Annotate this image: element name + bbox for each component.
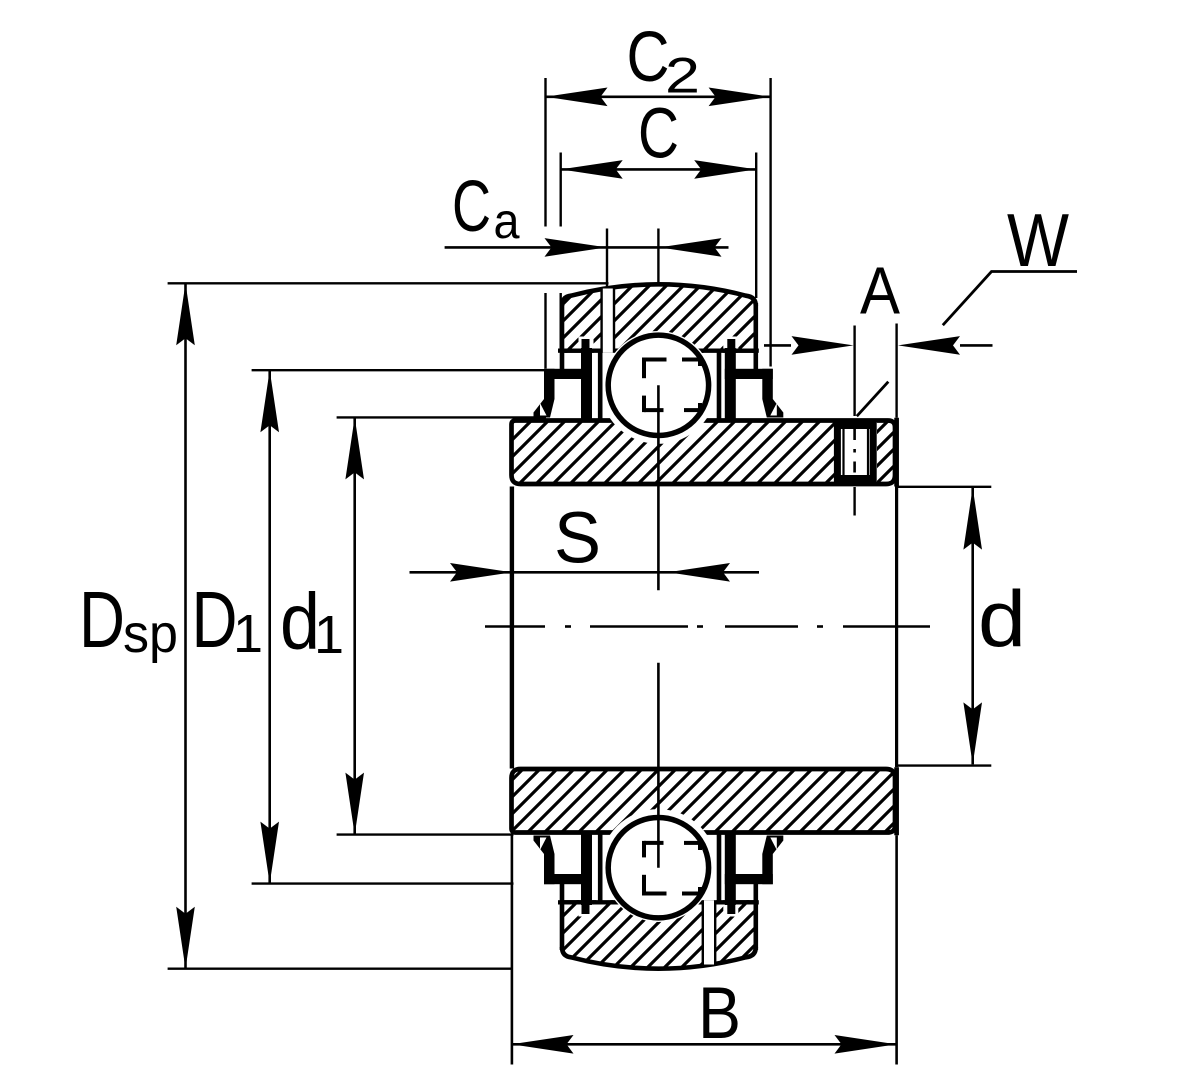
- Dsp bottom extension line: [168, 968, 512, 970]
- svg-text:A: A: [860, 254, 900, 329]
- svg-text:D: D: [79, 575, 125, 664]
- lubrication hole lower right edge: [714, 900, 716, 964]
- outer ring lower bore edge: [560, 900, 758, 904]
- dimension C left arrow: [561, 160, 623, 179]
- dimension Ca right arrow: [660, 238, 722, 257]
- set screw hole border: [837, 426, 873, 479]
- seal land line upper-right: [717, 353, 722, 419]
- dimension Ca line: [445, 246, 729, 249]
- svg-text:1: 1: [314, 605, 344, 665]
- cage pocket (lower ball, dashed square): [644, 841, 700, 896]
- ball centre plane line (upper): [657, 385, 660, 590]
- seal upper-left (flinger + lip): [534, 337, 595, 420]
- lubrication hole left edge: [600, 289, 602, 353]
- Ca ball plane extension: [657, 229, 659, 283]
- C right extension line: [755, 153, 757, 299]
- outer ring upper bore edge: [560, 349, 758, 353]
- dimension A left arrow: [792, 336, 854, 355]
- dimension A right tail: [960, 344, 993, 347]
- outer ring lower left face: [560, 884, 565, 950]
- dimension C line: [561, 168, 757, 171]
- dimension d1 line: [353, 417, 356, 834]
- seal land line lower-left: [598, 835, 603, 901]
- dimension C right arrow: [694, 160, 756, 179]
- label Dsp: [79, 575, 178, 664]
- D1 bottom extension line: [252, 882, 514, 884]
- Ca lubrication hole centre extension: [606, 229, 608, 288]
- lubrication hole (upper): [601, 289, 615, 353]
- lubrication hole lower left edge: [702, 900, 704, 964]
- dimension S right arrow: [668, 563, 730, 582]
- dimension S line: [410, 571, 760, 574]
- dimension C2 line: [546, 96, 771, 99]
- dimension A right arrow: [898, 336, 960, 355]
- d top extension line: [897, 486, 991, 488]
- bearing axis centreline: [485, 625, 930, 628]
- set screw centreline in hole: [853, 429, 856, 477]
- C2 right extension line: [769, 78, 771, 367]
- set screw thread line left: [842, 429, 844, 475]
- C left extension line: [560, 153, 562, 353]
- svg-text:C: C: [627, 18, 670, 97]
- svg-text:sp: sp: [123, 604, 178, 664]
- cage pocket (upper ball, dashed square): [644, 358, 700, 413]
- dimension d top arrow: [963, 488, 982, 550]
- svg-text:d: d: [978, 575, 1026, 664]
- ball centre plane line (lower): [657, 663, 660, 868]
- set screw centreline lower: [853, 487, 855, 516]
- outer ring upper spherical OD arc: [562, 284, 756, 306]
- svg-text:a: a: [494, 193, 520, 249]
- dimension Dsp top arrow: [176, 283, 195, 345]
- dimension Ca left arrow: [545, 238, 607, 257]
- dimension S left arrow: [450, 563, 512, 582]
- svg-text:D: D: [192, 575, 238, 664]
- dimension d1 bottom arrow: [345, 773, 364, 835]
- set screw thread line right: [867, 429, 869, 475]
- inner ring left face / extension line: [510, 487, 514, 1065]
- set screw centreline upper: [853, 326, 855, 417]
- dimension B line: [512, 1043, 897, 1046]
- C2 left extension line: [544, 78, 546, 369]
- dimension d1 top arrow: [345, 417, 364, 479]
- dimension D1 line: [268, 370, 271, 883]
- ball (upper): [608, 335, 708, 435]
- svg-text:1: 1: [233, 604, 263, 664]
- seal lower-left (flinger + lip): [534, 834, 595, 917]
- dimension C2 right arrow: [709, 88, 771, 107]
- W leader line to screw: [857, 382, 889, 417]
- svg-text:W: W: [1007, 198, 1069, 282]
- outer ring upper right face: [753, 303, 758, 369]
- seal land line lower-right: [717, 835, 722, 901]
- dimension A left tail: [764, 344, 791, 347]
- dimension Dsp line: [184, 283, 187, 968]
- dimension C2 left arrow: [546, 88, 608, 107]
- dimension B right arrow: [835, 1035, 897, 1054]
- dimension d line: [971, 488, 974, 765]
- label D1: [192, 575, 264, 664]
- outer ring lower spherical OD arc: [562, 947, 756, 969]
- label d1: [280, 577, 344, 666]
- seal land line upper-left: [598, 353, 603, 419]
- seal lower-right (flinger + lip): [723, 834, 784, 917]
- lubrication hole (lower): [702, 900, 716, 964]
- dimension d bottom arrow: [963, 702, 982, 764]
- dimension B left arrow: [512, 1035, 574, 1054]
- outer ring upper left face: [560, 303, 565, 369]
- svg-text:C: C: [452, 167, 491, 247]
- svg-text:B: B: [698, 973, 741, 1054]
- seal upper-right (flinger + lip): [723, 337, 784, 420]
- d1 bottom extension line: [337, 833, 514, 835]
- Dsp top extension line: [168, 282, 609, 284]
- D1 top extension line: [252, 369, 547, 371]
- d bottom extension line: [897, 764, 991, 766]
- dimension D1 top arrow: [260, 370, 279, 432]
- lubrication hole right edge: [613, 289, 615, 353]
- dimension D1 bottom arrow: [260, 822, 279, 884]
- dimension Dsp bottom arrow: [176, 907, 195, 969]
- inner ring right face / extension line: [895, 324, 897, 1065]
- W leader line: [943, 272, 1077, 326]
- label C2: [627, 18, 701, 104]
- svg-text:S: S: [554, 499, 601, 579]
- ball (lower): [608, 818, 708, 918]
- set screw hole clearance: [834, 423, 877, 482]
- outer ring lower right face: [753, 884, 758, 950]
- svg-text:C: C: [638, 94, 679, 173]
- d1 top extension line: [337, 416, 546, 418]
- label Ca: [452, 167, 520, 249]
